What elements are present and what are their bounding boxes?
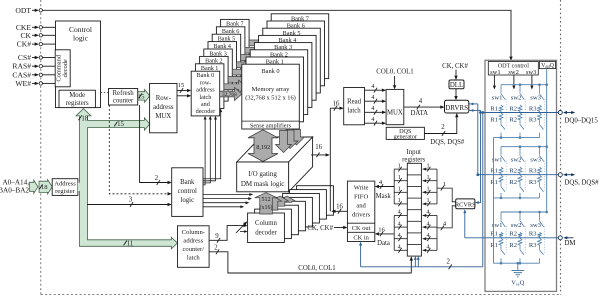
group3 top rail	[501, 211, 547, 213]
svg-text:R1: R1	[490, 242, 498, 249]
wire bank-control to column decoder 3	[203, 206, 243, 208]
svg-text:1: 1	[398, 186, 401, 193]
small gray bus arrows behind	[289, 130, 305, 146]
gray row arrow bank 4	[237, 58, 259, 71]
refresh counter box	[109, 89, 138, 106]
bank 1 row latch box	[195, 64, 224, 109]
svg-text:15: 15	[117, 121, 124, 128]
VddQ box	[539, 62, 555, 69]
wire 2 COL0 COL1	[209, 252, 411, 273]
svg-text:CK in: CK in	[353, 234, 369, 241]
data collector left	[393, 216, 395, 251]
svg-text:Mask: Mask	[376, 193, 392, 200]
svg-text:1: 1	[426, 162, 429, 169]
mask collector right	[436, 169, 438, 204]
wire mask 4	[376, 186, 394, 188]
group3 sw2/R2 column	[519, 212, 521, 220]
group2 bottom rail	[494, 197, 540, 199]
ODT control box	[488, 62, 538, 76]
svg-text:registers: registers	[402, 156, 425, 163]
wire bank-control to column decoder 0	[203, 194, 252, 196]
wire register cell 0 left	[394, 168, 407, 170]
wire register cell 3 left	[394, 203, 407, 205]
svg-text:counter/: counter/	[182, 246, 204, 253]
wire vertical data 16	[329, 108, 331, 211]
read latch box	[344, 88, 365, 125]
svg-text:MUX: MUX	[387, 110, 403, 117]
svg-text:512: 512	[262, 197, 271, 203]
bank 7 memory array box	[271, 14, 329, 79]
wire register cell 6 right	[423, 238, 437, 240]
address register box	[52, 179, 78, 196]
group1 sw1/R1 column	[500, 85, 502, 93]
svg-text:control: control	[178, 188, 197, 195]
wire register cell 5 left	[394, 226, 407, 228]
group2 sw2/R2 column	[519, 147, 521, 155]
svg-text:4: 4	[398, 209, 401, 216]
svg-text:and: and	[356, 203, 366, 210]
gray row arrow bank 3	[232, 66, 254, 79]
write FIFO box	[347, 181, 374, 241]
gray 512 arrow 1	[264, 196, 281, 210]
svg-text:R3: R3	[529, 105, 537, 112]
svg-text:4: 4	[426, 232, 429, 239]
bank 5 memory array box	[263, 28, 321, 93]
bank 1 memory array box	[246, 57, 304, 122]
svg-text:sw2: sw2	[511, 222, 522, 229]
dotted chip boundary right	[560, 0, 562, 295]
svg-text:MUX: MUX	[155, 113, 171, 120]
bank 0 memory array box	[242, 64, 299, 129]
wire write fifo 16	[332, 210, 347, 212]
wire bank-control to latch 3	[203, 110, 221, 179]
svg-text:VddQ: VddQ	[541, 63, 555, 69]
group1 top rail	[501, 84, 547, 86]
svg-text:DQS, DQS#: DQS, DQS#	[565, 180, 600, 187]
wire read latch to mux 3	[365, 122, 386, 124]
group1 bottom rail	[494, 137, 540, 139]
bank 4 row latch box	[208, 42, 237, 87]
svg-text:1: 1	[426, 174, 429, 181]
blue wire to register stack a	[414, 257, 416, 267]
dotted link control-refresh	[101, 91, 109, 93]
svg-text:32,768: 32,768	[222, 92, 237, 98]
8192 double arrow	[248, 130, 278, 162]
blue wire DQ down to input register bus	[482, 113, 484, 267]
svg-text:R1: R1	[490, 105, 498, 112]
svg-text:R3: R3	[529, 117, 537, 124]
green input arrow A0-A14/BA0-BA2	[29, 180, 38, 193]
svg-text:4: 4	[426, 220, 429, 227]
wire diagonal to column decoder	[236, 222, 246, 233]
group3 pad line	[465, 237, 558, 239]
gray 512 arrow 2	[271, 196, 288, 206]
svg-text:decoder: decoder	[255, 229, 277, 236]
ground symbol VssQ	[517, 263, 519, 270]
svg-text:BA0–BA2: BA0–BA2	[0, 187, 29, 195]
wire bank-control to latch 2	[203, 117, 216, 181]
svg-text:sw3: sw3	[530, 95, 541, 102]
svg-text:16: 16	[333, 101, 340, 108]
input registers stack	[407, 163, 421, 256]
bank 3 row latch box	[204, 49, 233, 94]
svg-text:logic: logic	[181, 197, 195, 204]
control logic box	[56, 21, 101, 108]
blue wire to register stack b	[417, 257, 419, 267]
bank 7 row latch box	[221, 19, 250, 64]
svg-text:1: 1	[398, 197, 401, 204]
bank 5 row latch box	[212, 34, 241, 79]
DQS generator box	[386, 127, 424, 139]
svg-text:R2: R2	[509, 179, 517, 186]
svg-text:R3: R3	[529, 242, 537, 249]
svg-text:decoder: decoder	[196, 108, 216, 115]
svg-text:R2: R2	[509, 231, 517, 238]
gray row arrow bank 2	[228, 73, 250, 86]
svg-text:18: 18	[81, 115, 88, 122]
wire register cell 7 left	[394, 249, 407, 251]
column decoder box 1	[255, 209, 292, 239]
svg-text:DLL: DLL	[450, 82, 463, 89]
svg-text:2: 2	[441, 124, 445, 131]
wire 2 to bank control	[140, 105, 171, 183]
ODT control arrow	[531, 75, 533, 88]
svg-text:sw1: sw1	[490, 69, 500, 76]
svg-text:CK#: CK#	[17, 40, 32, 49]
svg-text:CK: CK	[20, 31, 31, 40]
svg-text:DM mask logic: DM mask logic	[241, 180, 285, 188]
svg-text:Input: Input	[407, 149, 421, 156]
column decoder box 0	[248, 213, 285, 243]
wire read latch to mux 0	[365, 89, 386, 91]
wire bank-control to column decoder 2	[203, 202, 248, 204]
wire 3 bank address	[87, 204, 171, 206]
wire register cell 6 left	[394, 238, 407, 240]
wire bank-control to column decoder 1	[203, 198, 251, 200]
wire data 16	[376, 233, 394, 235]
svg-text:DATA: DATA	[411, 110, 429, 117]
svg-text:16: 16	[315, 144, 322, 151]
svg-text:2: 2	[214, 244, 218, 251]
wire register cell 0 right	[423, 168, 437, 170]
green 18 arrow into address register	[39, 180, 52, 194]
svg-text:A0–A14,: A0–A14,	[2, 179, 29, 187]
svg-text:DRVRS: DRVRS	[445, 104, 468, 112]
svg-text:latch: latch	[199, 94, 212, 101]
wire 9 to column decoder	[209, 226, 247, 241]
svg-text:4: 4	[398, 244, 401, 251]
group3 bottom rail	[494, 262, 540, 264]
svg-text:4: 4	[426, 244, 429, 251]
dashed chip boundary bottom	[41, 294, 561, 296]
wire col to mux	[394, 76, 396, 88]
svg-text:4: 4	[398, 232, 401, 239]
svg-text:registers: registers	[66, 100, 89, 107]
svg-text:2: 2	[446, 259, 450, 266]
svg-text:R3: R3	[529, 168, 537, 175]
svg-text:R1: R1	[490, 231, 498, 238]
bank 3 memory array box	[254, 43, 312, 108]
bank control logic box	[172, 168, 203, 217]
svg-text:Data: Data	[377, 240, 390, 247]
svg-text:CK out: CK out	[352, 225, 371, 232]
svg-text:COL0, COL1: COL0, COL1	[298, 265, 335, 272]
svg-text:Address: Address	[54, 181, 76, 188]
group2 sw3/R3 column	[539, 147, 541, 155]
svg-text:4: 4	[426, 209, 429, 216]
svg-text:sw3: sw3	[526, 69, 536, 76]
wire register cell 2 right	[423, 191, 437, 193]
wire register cell 3 right	[423, 203, 437, 205]
ODT control arrow	[513, 75, 515, 88]
column-address counter/latch box	[178, 226, 210, 267]
VssQ left rail	[493, 138, 495, 264]
bank 6 row latch box	[216, 27, 245, 72]
blue wire to CK in	[360, 243, 362, 267]
wire DQS 2	[424, 114, 456, 134]
group1 sw2/R2 column	[519, 85, 521, 93]
group2 pad line	[478, 174, 558, 176]
blue bottom bus wire	[361, 266, 483, 268]
io gating front face	[237, 162, 289, 192]
svg-text:Bank 0: Bank 0	[197, 72, 215, 79]
svg-text:generator: generator	[394, 134, 417, 141]
group2 sw1/R1 column	[500, 147, 502, 155]
blue wire DM to RCVRS	[464, 210, 466, 238]
VddQ rail	[546, 69, 548, 212]
svg-text:R2: R2	[509, 105, 517, 112]
gray row arrow bank 7	[249, 36, 271, 49]
green address bus (18/15/11)	[76, 109, 178, 249]
column decoder box 2	[262, 205, 299, 235]
bank 2 row latch box	[200, 56, 229, 101]
svg-text:drivers: drivers	[352, 212, 371, 219]
svg-text:COL0, COL1: COL0, COL1	[376, 69, 413, 76]
wire io-gating 16	[311, 154, 328, 156]
wire short to column decoder	[240, 231, 247, 233]
mux box	[386, 89, 404, 124]
wire register cell 1 right	[423, 180, 437, 182]
svg-text:WE#: WE#	[15, 79, 31, 88]
svg-text:sw3: sw3	[530, 222, 541, 229]
svg-text:15: 15	[178, 82, 185, 89]
command decode box	[55, 50, 70, 87]
svg-text:1: 1	[443, 181, 446, 188]
svg-text:16: 16	[336, 204, 343, 211]
svg-text:decode: decode	[62, 59, 69, 77]
svg-text:Read: Read	[347, 98, 362, 105]
svg-text:(x16): (x16)	[260, 204, 273, 211]
wire register cell 5 right	[423, 226, 437, 228]
svg-text:R2: R2	[509, 117, 517, 124]
io gating right face	[289, 137, 313, 192]
svg-text:CS#: CS#	[18, 53, 31, 62]
dashed chip boundary left	[40, 0, 42, 295]
green refresh-counter to row-mux 15 arrow	[138, 90, 150, 103]
column decoder box 5	[283, 194, 320, 224]
svg-text:2: 2	[155, 175, 159, 182]
svg-text:address: address	[183, 238, 203, 245]
svg-text:R1: R1	[490, 179, 498, 186]
svg-text:DM: DM	[565, 240, 576, 247]
bank 2 memory array box	[250, 50, 308, 115]
gray row arrow bank 5	[241, 51, 263, 64]
bank 6 memory array box	[267, 21, 325, 86]
svg-text:1: 1	[426, 186, 429, 193]
svg-text:1: 1	[426, 197, 429, 204]
svg-text:sw2: sw2	[511, 95, 522, 102]
svg-text:11: 11	[127, 241, 134, 248]
wire DATA 4	[404, 106, 444, 108]
gray row arrow bank 6	[245, 44, 267, 57]
column decoder box 4	[276, 197, 313, 227]
svg-text:9: 9	[215, 233, 219, 240]
blue wire DRVRS to DQ pads	[469, 109, 481, 111]
row-address MUX box	[150, 84, 177, 133]
svg-text:16: 16	[378, 226, 385, 233]
column decoder box 7	[297, 186, 334, 216]
wire to DLL	[455, 70, 457, 79]
group1 pad line	[481, 112, 559, 114]
gray row arrow bank 1	[224, 80, 246, 93]
svg-text:R2: R2	[509, 242, 517, 249]
svg-text:RCVRS: RCVRS	[455, 201, 476, 208]
group1 sw3/R3 column	[539, 85, 541, 93]
svg-text:DQS, DQS#: DQS, DQS#	[430, 139, 465, 146]
svg-text:Bank: Bank	[180, 179, 195, 186]
wire read latch to mux 2	[365, 111, 386, 113]
data collector right	[436, 216, 438, 251]
ODT control arrow	[493, 75, 495, 88]
bank 0 row latch box	[191, 71, 220, 116]
mask collector left	[393, 169, 395, 204]
wire register cell 2 left	[394, 191, 407, 193]
svg-text:1: 1	[398, 174, 401, 181]
svg-text:and: and	[201, 101, 211, 108]
wire mux to latch 15	[177, 90, 190, 92]
svg-text:register: register	[55, 188, 76, 195]
ODT outer gray box	[485, 60, 557, 291]
group2 top rail	[501, 146, 547, 148]
svg-text:Write: Write	[354, 185, 369, 192]
column decoder box 6	[290, 190, 327, 220]
svg-text:sw1: sw1	[492, 95, 503, 102]
svg-text:sw3: sw3	[530, 157, 541, 164]
svg-text:8,192: 8,192	[256, 144, 270, 151]
svg-text:(32,768 x 512 x 16): (32,768 x 512 x 16)	[245, 95, 296, 102]
wire bank-control to latch 1	[203, 117, 210, 183]
wire register cell 4 left	[394, 215, 407, 217]
svg-text:Row-: Row-	[156, 95, 172, 102]
svg-text:4: 4	[419, 98, 423, 105]
wire mux to latch 2	[177, 95, 190, 97]
wire rcvrs data 4	[437, 206, 456, 228]
svg-text:Memory array: Memory array	[252, 86, 291, 93]
svg-text:Mode: Mode	[69, 92, 85, 99]
svg-text:DQ0–DQ15: DQ0–DQ15	[565, 118, 599, 125]
blue wire DRVRS to DQS pads	[469, 103, 478, 105]
svg-text:latch: latch	[347, 107, 361, 114]
svg-text:CK, CK#: CK, CK#	[307, 225, 333, 232]
wire register cell 1 left	[394, 180, 407, 182]
gray 512 arrow 0	[255, 193, 278, 214]
dashed wire refresh to bank control	[109, 105, 170, 194]
svg-text:latch: latch	[187, 254, 201, 261]
wire rcvrs mask 1	[437, 188, 456, 202]
svg-text:VssQ: VssQ	[511, 280, 524, 287]
wire read latch to mux 1	[365, 100, 386, 102]
bank 4 memory array box	[259, 35, 317, 100]
wire to read latch	[330, 107, 342, 109]
svg-text:counter: counter	[113, 98, 134, 105]
svg-text:Refresh: Refresh	[113, 90, 135, 97]
svg-text:Column-: Column-	[182, 229, 205, 236]
svg-text:4: 4	[398, 220, 401, 227]
group3 sw3/R3 column	[539, 212, 541, 220]
svg-text:3: 3	[129, 197, 133, 204]
ODT wire to ODT control	[43, 10, 512, 58]
io gating top face	[237, 137, 313, 162]
gray row arrow bank 0	[220, 87, 242, 100]
svg-text:Column: Column	[255, 220, 278, 227]
wire register cell 4 right	[423, 215, 437, 217]
group3 sw1/R1 column	[500, 212, 502, 220]
wire bank-control to latch 0	[203, 117, 205, 185]
svg-text:R1: R1	[490, 117, 498, 124]
svg-text:R3: R3	[529, 231, 537, 238]
svg-text:R3: R3	[529, 179, 537, 186]
svg-text:1: 1	[398, 162, 401, 169]
svg-text:sw2: sw2	[511, 157, 522, 164]
mode registers box	[59, 90, 95, 107]
wire register cell 7 right	[423, 249, 437, 251]
svg-text:row-: row-	[200, 79, 212, 86]
svg-text:FIFO: FIFO	[354, 194, 369, 201]
svg-text:Bank 0: Bank 0	[261, 68, 279, 75]
gray 512 arrow 3	[278, 196, 295, 202]
svg-text:CK, CK#: CK, CK#	[442, 63, 468, 70]
svg-text:R2: R2	[509, 168, 517, 175]
svg-text:ODT: ODT	[15, 6, 31, 15]
svg-text:Sense amplifiers: Sense amplifiers	[250, 123, 292, 130]
column decoder box 3	[269, 201, 306, 231]
svg-text:address: address	[196, 87, 215, 94]
svg-text:address: address	[153, 104, 174, 111]
blue wire DQ to RCVRS	[476, 113, 480, 203]
svg-text:logic: logic	[73, 34, 89, 43]
svg-text:R1: R1	[490, 168, 498, 175]
svg-text:I/O gating: I/O gating	[248, 170, 277, 178]
wire DLL to DRVRS	[455, 89, 457, 99]
